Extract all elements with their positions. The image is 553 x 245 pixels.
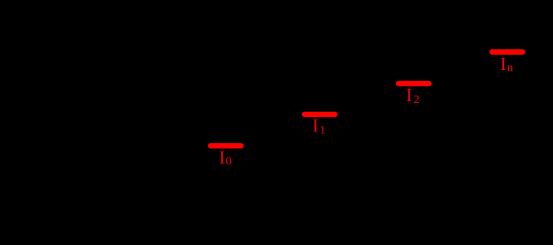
level I0 bar — [211, 143, 241, 148]
label In — [500, 54, 513, 74]
label I2 — [406, 85, 420, 106]
label I1 — [313, 116, 326, 137]
svg-text:I: I — [219, 147, 225, 167]
label I0 — [219, 147, 232, 167]
level I2 bar — [398, 81, 429, 86]
level In bar — [492, 49, 522, 54]
svg-text:n: n — [507, 60, 513, 74]
svg-text:1: 1 — [320, 123, 326, 137]
svg-text:I: I — [406, 85, 412, 105]
svg-text:0: 0 — [226, 154, 232, 168]
level I1 bar — [305, 112, 335, 117]
svg-text:I: I — [500, 54, 506, 74]
svg-text:2: 2 — [414, 92, 420, 106]
svg-text:I: I — [313, 116, 319, 136]
